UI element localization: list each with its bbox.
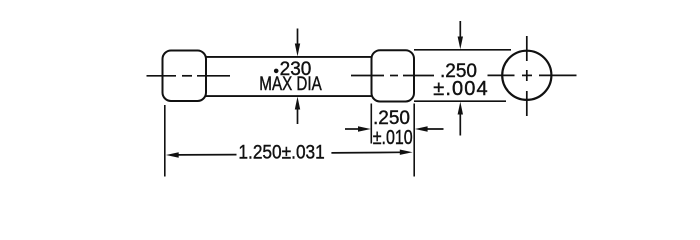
dim .230 bottom arrow xyxy=(295,97,300,124)
end-view circle xyxy=(502,51,551,100)
horizontal centerline (dash-dot axis) xyxy=(147,74,577,76)
svg-text:MAX DIA: MAX DIA xyxy=(259,73,322,95)
svg-text:±.004: ±.004 xyxy=(433,78,488,100)
right end cap xyxy=(372,50,415,101)
dim 1.250±.031 left extension line xyxy=(164,105,166,177)
body bottom line xyxy=(205,95,373,97)
body top line xyxy=(205,56,373,58)
projection line bottom (cap bottom to circle) xyxy=(414,100,506,102)
svg-text:±.010: ±.010 xyxy=(373,126,413,148)
dim 1.250±.031 left arrow xyxy=(166,152,237,157)
dim .250±.004 bottom arrow xyxy=(458,102,463,136)
vertical centerline of circle xyxy=(526,36,528,116)
dim .250±.010 right arrow xyxy=(415,126,444,131)
left end cap xyxy=(163,51,207,102)
projection line top (cap top to circle) xyxy=(414,49,511,51)
shared right extension line (cap edge, used by .250±.010 and 1.250±.031) xyxy=(413,104,415,177)
dim .250±.010 left extension line xyxy=(370,104,372,144)
svg-text:1.250±.031: 1.250±.031 xyxy=(238,142,324,163)
dim .230 top arrow xyxy=(295,29,300,57)
dim .250±.004 top arrow xyxy=(458,21,463,49)
dim .250±.010 left arrow xyxy=(345,126,371,131)
text .230 xyxy=(274,69,279,74)
dim 1.250±.031 right arrow xyxy=(331,150,412,155)
